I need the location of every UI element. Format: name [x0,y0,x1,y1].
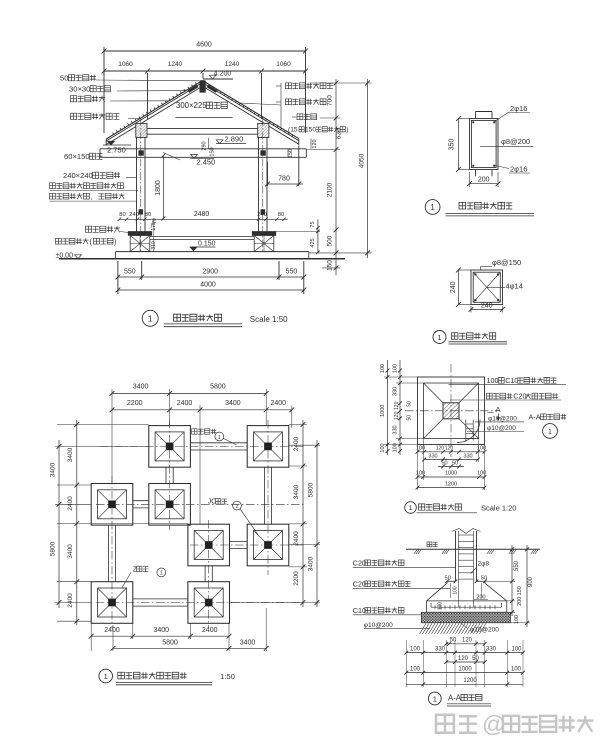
small 120/150 dims right [310,139,312,149]
extension lines from chain to roof [147,73,149,119]
svg-text:240: 240 [129,212,139,218]
detail title [405,502,417,514]
right outer 4050 chain [367,79,369,258]
svg-text:4050: 4050 [359,153,366,168]
svg-text:2400: 2400 [293,436,300,451]
soil hatch below bedding [420,623,487,634]
section right chains [511,545,513,616]
svg-text:1060: 1060 [118,61,133,68]
bottom dim chains of elevation [118,276,304,278]
svg-text:A-A: A-A [448,693,462,702]
svg-text:Scale 1:50: Scale 1:50 [250,315,288,324]
section bottom chains [446,643,484,645]
svg-text:550: 550 [124,269,136,276]
platform slab [116,251,309,253]
0.150 marker [192,246,216,248]
zhihu watermark [436,715,454,733]
svg-text:50: 50 [60,74,68,83]
svg-text:120: 120 [312,139,318,148]
svg-text:240: 240 [450,281,457,293]
plan left chains [76,420,78,625]
pedestals [128,232,152,236]
svg-text:330: 330 [428,453,437,459]
svg-text:2.890: 2.890 [225,135,244,144]
plan left extension lines [57,424,149,426]
svg-text:2φ16: 2φ16 [510,104,527,113]
svg-text:5800: 5800 [210,384,226,391]
footing A [149,426,191,468]
svg-text:φ10@200: φ10@200 [487,425,516,432]
svg-text:4.200: 4.200 [214,71,232,78]
svg-text:3400: 3400 [50,462,57,477]
2.750 marker [103,144,131,146]
footing F [247,524,289,566]
svg-text:1200: 1200 [445,481,457,487]
svg-text:100: 100 [393,364,399,373]
svg-text:1000: 1000 [445,471,457,477]
svg-text:330: 330 [393,425,399,434]
plan right extension lines [289,424,307,426]
svg-text:3400: 3400 [154,627,170,634]
svg-text:(15: (15 [288,127,298,134]
plan bottom chains [91,635,229,637]
ground line [406,548,540,550]
svg-text:330: 330 [463,453,472,459]
right inner big chain [335,79,337,275]
svg-text:2400: 2400 [104,627,120,634]
svg-text:2400: 2400 [177,400,193,407]
svg-text:3400: 3400 [67,447,74,462]
svg-text:5800: 5800 [50,541,57,556]
svg-text:120: 120 [436,446,445,452]
elevation dim chain 1060/1240/1240/1060 [104,70,306,72]
svg-text:C10: C10 [505,376,518,385]
svg-text:1240: 1240 [168,61,183,68]
svg-text:80: 80 [278,212,284,218]
svg-text:3400: 3400 [240,639,256,646]
svg-text:3400: 3400 [67,544,74,559]
svg-text:50: 50 [407,401,413,407]
svg-text:100: 100 [452,586,458,595]
svg-text:φ8@150: φ8@150 [492,258,521,267]
svg-text:550: 550 [514,560,520,571]
footing H [188,582,230,624]
leader near beam [163,153,180,161]
svg-text:200: 200 [517,597,523,606]
svg-text:1: 1 [218,435,221,441]
svg-text:2400: 2400 [271,400,287,407]
svg-text:1200: 1200 [463,678,477,684]
1800 vertical dim [162,156,164,219]
column rebar dots [474,273,476,275]
plan title [99,669,113,683]
svg-text:700: 700 [326,95,333,106]
elevation title [142,310,158,326]
footing profile [447,580,456,582]
footing E [188,524,230,566]
svg-text:780: 780 [278,176,290,183]
svg-text:630: 630 [336,128,343,139]
svg-text:100: 100 [380,364,386,373]
svg-text:3400: 3400 [293,484,300,499]
svg-text:350: 350 [448,139,455,151]
beam B-F [263,467,265,524]
detail bottom chains [418,451,485,453]
column dims 240 [457,270,459,305]
svg-text:2.450: 2.450 [197,158,216,167]
svg-text:100: 100 [380,443,386,452]
svg-text:2400: 2400 [202,627,218,634]
footing inner step lines [450,583,452,598]
beam A-B [190,442,247,444]
svg-text:JC: JC [208,499,216,506]
right roof layer labels [286,83,292,89]
plan right chains [302,420,304,607]
right micro chain 75/425 [317,219,319,253]
grid centerlines [100,445,304,447]
svg-text:100: 100 [487,376,499,385]
2480 dim line with 80/240/80 [119,218,287,220]
svg-text:2φ8: 2φ8 [478,561,490,568]
svg-text:φ10@200: φ10@200 [470,626,499,633]
svg-text:240: 240 [481,302,493,309]
svg-text:150: 150 [288,149,294,158]
beam rebar dots [472,121,474,123]
svg-text:1: 1 [430,203,435,212]
svg-text:100: 100 [511,666,522,672]
svg-text:50: 50 [407,415,413,421]
plan top dim chains [112,392,266,394]
svg-text:2480: 2480 [194,211,210,218]
svg-text:50: 50 [450,638,457,644]
svg-text:5800: 5800 [308,482,315,497]
svg-text:80: 80 [119,212,125,218]
svg-text:240: 240 [257,212,267,218]
small blocks in columns [139,210,143,215]
ridge cap [200,81,205,93]
column stirrup [473,272,500,302]
svg-text:3400: 3400 [308,556,315,571]
plan bottom extension lines [90,623,92,651]
svg-text:4600: 4600 [196,42,212,49]
svg-text:1: 1 [104,672,108,681]
svg-text:2900: 2900 [202,269,218,276]
svg-text:120: 120 [458,656,469,662]
svg-text:1: 1 [548,429,552,436]
svg-text:C20: C20 [353,579,366,588]
svg-text:1800: 1800 [155,180,162,196]
svg-text:550: 550 [286,269,298,276]
eave beam between caps [147,128,258,130]
svg-text:4000: 4000 [200,282,216,289]
beam C-G [107,525,109,582]
svg-text:Scale 1:20: Scale 1:20 [481,504,516,513]
svg-text:900: 900 [528,576,534,587]
right extension lines [310,82,372,84]
plan leader labels [192,429,197,434]
svg-text:C20: C20 [353,558,366,567]
svg-text:425: 425 [310,238,316,247]
svg-text:150: 150 [210,147,216,156]
svg-text:150: 150 [326,260,333,271]
detail inner square [424,383,479,439]
beam stirrup [471,120,496,167]
footing D [149,484,191,526]
svg-text:1:50: 1:50 [220,672,235,681]
svg-text:1: 1 [437,333,441,342]
svg-text:330: 330 [435,646,446,652]
svg-text:): ) [346,127,348,134]
svg-text:C20: C20 [513,392,526,401]
beam E-F [230,540,248,542]
column diagonals [473,272,500,302]
detail left chains [387,360,389,455]
svg-text:500: 500 [326,235,333,246]
2.450 marker [191,157,215,159]
svg-text:A-A: A-A [529,412,541,421]
svg-text:175: 175 [151,222,157,231]
svg-text:2: 2 [235,504,238,510]
svg-text:310: 310 [151,241,157,250]
svg-text:1: 1 [160,571,163,577]
bench lines [150,236,254,238]
beam formwork extensions [475,112,477,119]
svg-text:50: 50 [441,460,447,466]
elevation top dim chain 4600 [104,50,306,52]
svg-text:2200: 2200 [127,400,143,407]
svg-text:1: 1 [148,313,153,323]
footing C [91,484,133,526]
svg-text:120: 120 [394,411,400,420]
svg-text:A: A [496,405,501,414]
svg-text:2100: 2100 [326,182,333,197]
detail leaders right [449,383,567,385]
svg-text:1240: 1240 [225,61,240,68]
svg-text:150: 150 [517,586,523,595]
detail diagonals [424,383,444,403]
svg-text:3400: 3400 [133,384,149,391]
svg-text:240×240: 240×240 [63,171,93,180]
beam A-D [165,467,167,483]
svg-text:φ10@200: φ10@200 [488,415,517,422]
beam G-H [133,598,188,600]
svg-text:80: 80 [145,212,151,218]
svg-text:,: , [90,192,92,201]
beam E-H [204,566,206,582]
section chain extension verticals [405,640,407,687]
beam dim 350 [458,119,460,170]
svg-text:50: 50 [452,460,458,466]
ground line [59,258,345,260]
svg-text:330: 330 [486,646,497,652]
svg-text:100: 100 [511,646,522,652]
roof slopes (3 parallel lines each) [106,81,202,140]
svg-text:2400: 2400 [67,593,74,608]
svg-text:2200: 2200 [293,571,300,586]
svg-text:1000: 1000 [458,666,472,672]
bedding layer stipple [421,612,510,623]
footing B [247,426,289,468]
svg-text:1060: 1060 [276,61,291,68]
svg-text:100: 100 [410,666,421,672]
svg-text:100: 100 [477,471,486,477]
svg-text:30×30: 30×30 [69,85,90,94]
footing G [91,582,133,624]
svg-text:120: 120 [394,401,400,410]
svg-text:60×150: 60×150 [64,152,90,161]
60x150 timber beam [100,148,306,150]
section title [428,692,441,705]
svg-text:120: 120 [462,638,473,644]
column section outer [471,270,503,305]
plan top extension lines [111,389,113,483]
svg-text:100: 100 [438,602,444,611]
svg-text:2.750: 2.750 [107,146,126,155]
svg-text:120: 120 [445,446,454,452]
column top break [452,529,481,534]
svg-text:1: 1 [433,694,437,703]
beam dim 200 [470,183,499,185]
beam dowels at columns [139,151,144,156]
roof tile ticks left slope [113,82,197,134]
detail rebar quarter arc with dowel ladder [457,420,480,443]
svg-text:C10: C10 [353,606,366,615]
beam C-D [133,500,149,502]
svg-text:2400: 2400 [67,496,74,511]
svg-text:): ) [114,237,116,246]
hatched column caps at eaves [136,123,147,137]
svg-text:5800: 5800 [162,639,178,646]
eave fascia ends [105,139,107,145]
svg-text:300×225: 300×225 [176,101,207,110]
svg-text:1000: 1000 [380,405,386,417]
svg-text:1: 1 [409,505,413,512]
svg-text:φ10@200: φ10@200 [364,622,393,629]
beam section outer [470,119,499,170]
svg-text:3400: 3400 [225,400,241,407]
roof tile ticks right slope [209,85,293,137]
detail column hatched [443,403,459,419]
svg-text:200: 200 [478,177,490,184]
svg-text:150: 150 [305,127,316,134]
svg-text:2400: 2400 [293,531,300,546]
svg-text:290: 290 [202,141,208,150]
section column [455,531,457,581]
columns [136,138,138,232]
2.890 marker [216,143,246,145]
svg-text:330: 330 [393,387,399,396]
column detail title [433,331,446,344]
detail outer square [418,377,485,445]
svg-text:4φ14: 4φ14 [506,282,523,291]
footing bottom rebar [431,606,502,608]
svg-text:0.150: 0.150 [198,241,216,248]
svg-text:2φ16: 2φ16 [510,165,527,174]
svg-text:100: 100 [410,646,421,652]
svg-text:φ8@200: φ8@200 [501,137,530,146]
beam detail title [425,200,440,215]
svg-text:75: 75 [310,221,316,227]
detail centerlines [405,410,497,412]
